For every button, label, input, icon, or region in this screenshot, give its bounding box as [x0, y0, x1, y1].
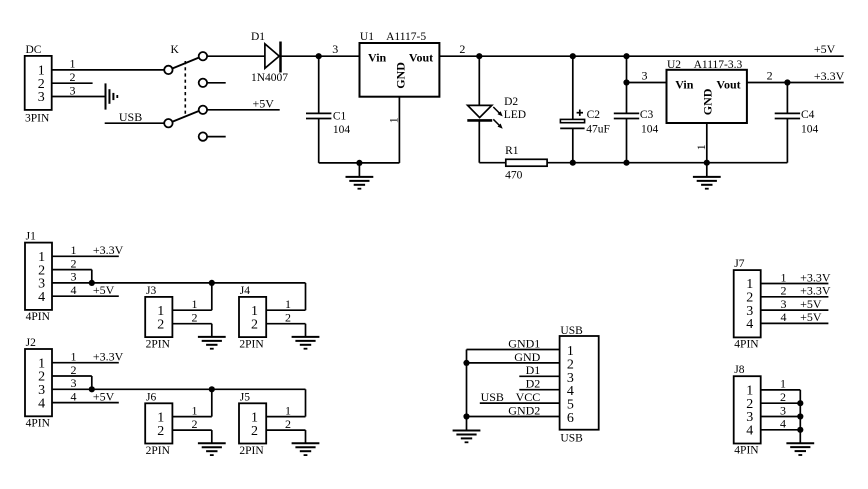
svg-text:2: 2: [459, 42, 465, 56]
svg-text:U2: U2: [667, 59, 681, 71]
svg-text:4PIN: 4PIN: [734, 445, 759, 457]
svg-text:D1: D1: [251, 31, 265, 43]
svg-text:GND: GND: [514, 350, 540, 364]
svg-text:4PIN: 4PIN: [26, 417, 51, 429]
svg-text:USB: USB: [560, 432, 583, 444]
svg-text:J8: J8: [734, 364, 744, 376]
svg-text:1: 1: [192, 403, 198, 417]
svg-text:1: 1: [780, 377, 786, 391]
svg-text:+3.3V: +3.3V: [93, 243, 124, 257]
svg-text:J5: J5: [240, 391, 250, 403]
svg-text:1: 1: [387, 117, 401, 123]
svg-text:+3.3V: +3.3V: [93, 350, 124, 364]
svg-text:J4: J4: [240, 285, 250, 297]
svg-text:3: 3: [780, 403, 786, 417]
svg-text:USB: USB: [481, 390, 504, 404]
svg-text:D2: D2: [526, 377, 541, 391]
svg-text:Vin: Vin: [675, 77, 694, 91]
svg-text:GND2: GND2: [508, 403, 540, 417]
svg-text:3PIN: 3PIN: [25, 112, 50, 124]
svg-text:+5V: +5V: [253, 96, 275, 110]
svg-text:+3.3V: +3.3V: [800, 270, 831, 284]
svg-text:LED: LED: [504, 109, 526, 121]
svg-text:C3: C3: [640, 109, 654, 121]
svg-text:3: 3: [332, 42, 338, 56]
svg-text:3: 3: [71, 270, 77, 284]
svg-text:2: 2: [781, 284, 787, 298]
svg-text:USB: USB: [560, 325, 583, 337]
svg-text:1N4007: 1N4007: [251, 72, 288, 84]
svg-text:+5V: +5V: [93, 389, 115, 403]
svg-text:2PIN: 2PIN: [146, 445, 171, 457]
svg-text:4PIN: 4PIN: [26, 311, 51, 323]
svg-text:2: 2: [157, 317, 164, 332]
svg-text:470: 470: [505, 169, 522, 181]
svg-text:2: 2: [285, 311, 291, 325]
svg-text:2: 2: [192, 417, 198, 431]
svg-text:2: 2: [70, 70, 76, 84]
svg-text:1: 1: [285, 403, 291, 417]
svg-text:D1: D1: [526, 363, 541, 377]
svg-text:2PIN: 2PIN: [239, 339, 264, 351]
svg-text:4: 4: [746, 424, 753, 439]
svg-text:3: 3: [70, 83, 76, 97]
svg-text:VCC: VCC: [516, 390, 541, 404]
svg-text:2: 2: [251, 424, 258, 439]
svg-text:104: 104: [801, 124, 819, 136]
svg-text:2PIN: 2PIN: [239, 445, 264, 457]
svg-text:4: 4: [71, 389, 77, 403]
svg-text:3: 3: [642, 69, 648, 83]
svg-text:+5V: +5V: [814, 42, 836, 56]
svg-text:1: 1: [781, 270, 787, 284]
svg-text:1: 1: [192, 297, 198, 311]
svg-text:2PIN: 2PIN: [146, 339, 171, 351]
svg-text:GND1: GND1: [508, 336, 540, 350]
svg-text:2: 2: [192, 311, 198, 325]
svg-text:2: 2: [285, 417, 291, 431]
svg-text:J1: J1: [26, 230, 36, 242]
svg-text:Vout: Vout: [409, 51, 433, 65]
svg-text:3: 3: [781, 297, 787, 311]
svg-text:1: 1: [70, 57, 76, 71]
svg-text:2: 2: [157, 424, 164, 439]
svg-text:1: 1: [285, 297, 291, 311]
svg-text:U1: U1: [360, 31, 374, 43]
svg-text:2: 2: [767, 69, 773, 83]
svg-text:104: 104: [641, 124, 659, 136]
svg-text:104: 104: [333, 124, 351, 136]
svg-text:2: 2: [251, 317, 258, 332]
svg-text:1: 1: [71, 350, 77, 364]
svg-text:K: K: [171, 44, 180, 56]
svg-text:D2: D2: [504, 96, 518, 108]
svg-text:Vin: Vin: [368, 51, 387, 65]
svg-text:C2: C2: [587, 109, 601, 121]
svg-text:GND: GND: [700, 88, 714, 115]
svg-text:USB: USB: [119, 110, 142, 124]
svg-text:+3.3V: +3.3V: [800, 284, 831, 298]
svg-text:6: 6: [567, 411, 574, 426]
svg-text:J6: J6: [146, 391, 156, 403]
svg-text:4: 4: [71, 283, 77, 297]
svg-text:2: 2: [71, 363, 77, 377]
svg-text:2: 2: [780, 390, 786, 404]
svg-text:1: 1: [694, 144, 708, 150]
svg-text:J2: J2: [26, 337, 36, 349]
svg-text:4: 4: [38, 290, 45, 305]
svg-text:3: 3: [38, 90, 45, 105]
svg-text:+5V: +5V: [800, 297, 822, 311]
svg-text:4: 4: [746, 317, 753, 332]
svg-text:A1117-5: A1117-5: [386, 31, 426, 43]
svg-text:3: 3: [71, 376, 77, 390]
svg-text:47uF: 47uF: [586, 124, 610, 136]
svg-text:Vout: Vout: [716, 77, 740, 91]
svg-text:4PIN: 4PIN: [734, 338, 759, 350]
svg-text:+3.3V: +3.3V: [814, 69, 845, 83]
svg-text:J3: J3: [146, 285, 156, 297]
svg-text:R1: R1: [505, 145, 519, 157]
svg-text:C1: C1: [333, 111, 347, 123]
svg-text:2: 2: [71, 256, 77, 270]
svg-text:A1117-3.3: A1117-3.3: [694, 59, 743, 71]
svg-text:+5V: +5V: [800, 310, 822, 324]
svg-text:J7: J7: [734, 258, 744, 270]
svg-text:4: 4: [780, 417, 786, 431]
svg-text:1: 1: [71, 243, 77, 257]
svg-text:+5V: +5V: [93, 283, 115, 297]
svg-text:4: 4: [781, 310, 787, 324]
svg-text:GND: GND: [393, 62, 407, 89]
svg-text:4: 4: [38, 396, 45, 411]
svg-text:DC: DC: [26, 44, 42, 56]
svg-text:C4: C4: [801, 109, 815, 121]
